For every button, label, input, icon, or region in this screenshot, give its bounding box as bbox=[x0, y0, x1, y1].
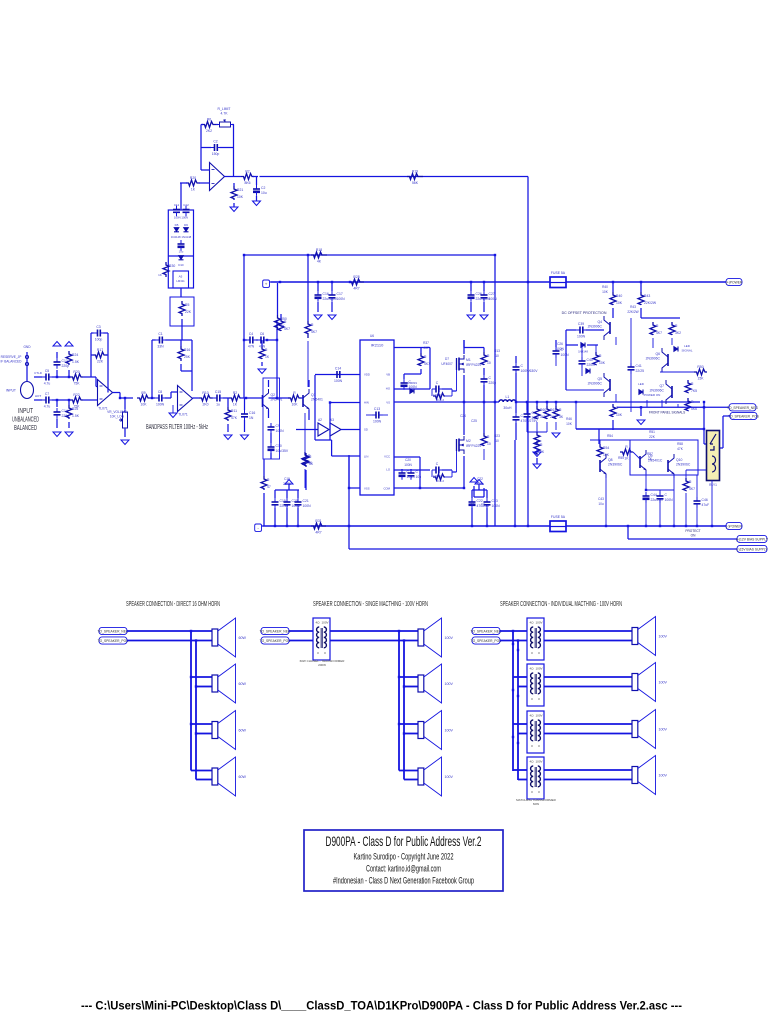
label matching transformer 200w bbox=[300, 659, 346, 667]
wire R52 bot bbox=[555, 422, 557, 430]
label C26 texture bbox=[557, 342, 563, 346]
resistor R6 bbox=[202, 118, 216, 134]
capacitor C17r bbox=[329, 291, 346, 302]
wire R21 to gnd bbox=[233, 203, 235, 207]
wire C45 down bbox=[659, 502, 661, 526]
svg-text:TO_SPEAKER_POS: TO_SPEAKER_POS bbox=[98, 639, 130, 643]
wire Q9 link bbox=[633, 452, 640, 459]
svg-text:1N: 1N bbox=[249, 416, 254, 420]
capacitor C4a bbox=[246, 332, 257, 349]
svg-text:R20: R20 bbox=[73, 370, 79, 374]
svg-text:HIN: HIN bbox=[364, 401, 369, 405]
wire pin VB out bbox=[394, 347, 430, 349]
label R16g bbox=[436, 479, 444, 483]
capacitor C11 bbox=[173, 206, 180, 217]
svg-text:100V: 100V bbox=[535, 667, 542, 671]
resistor R5 loop box bbox=[170, 297, 194, 326]
resistor R43 bbox=[638, 292, 657, 305]
svg-text:47N: 47N bbox=[248, 345, 255, 349]
label R46 texture bbox=[566, 417, 572, 421]
svg-text:100V: 100V bbox=[445, 775, 454, 779]
svg-text:100N: 100N bbox=[492, 504, 501, 508]
svg-text:D5: D5 bbox=[175, 223, 179, 227]
wire junction dots bbox=[56, 254, 713, 744]
label R_LIMIT bbox=[218, 107, 231, 111]
resistor R10 bbox=[199, 391, 212, 407]
wire U1 top jog b bbox=[96, 386, 98, 388]
label A3 bbox=[330, 418, 334, 422]
svg-text:C9: C9 bbox=[481, 502, 485, 506]
wire pin HO out bbox=[394, 388, 430, 390]
wire C14 down bbox=[56, 419, 58, 428]
transformer T2 bbox=[527, 618, 544, 660]
wire panel drop a bbox=[646, 400, 648, 407]
wire pos flag stub bbox=[723, 415, 730, 417]
svg-text:33N: 33N bbox=[157, 345, 164, 349]
pin VDD bbox=[364, 373, 370, 377]
svg-text:C17: C17 bbox=[337, 292, 343, 296]
svg-text:75K: 75K bbox=[73, 382, 80, 386]
label D7 1N4819 bbox=[407, 381, 417, 385]
capacitor C6a bbox=[257, 332, 268, 349]
wire C45 bus bbox=[646, 489, 674, 491]
mosfet M1 bbox=[457, 355, 482, 373]
svg-text:R23: R23 bbox=[494, 434, 500, 438]
svg-text:100N: 100N bbox=[337, 297, 346, 301]
svg-text:8K6: 8K6 bbox=[244, 181, 250, 185]
op-amp U2 bbox=[178, 386, 193, 417]
pin COM bbox=[383, 487, 390, 491]
flag positive rail left bbox=[263, 280, 270, 287]
transformer T3 bbox=[527, 664, 544, 706]
wire Q2 collector bbox=[308, 380, 310, 387]
resistor R38 boot bbox=[418, 353, 430, 366]
capacitor C37 zobel bbox=[524, 410, 540, 421]
pin VCC bbox=[384, 455, 390, 459]
svg-text:10u: 10u bbox=[261, 191, 267, 195]
svg-text:VR_VOLUME: VR_VOLUME bbox=[107, 410, 127, 414]
svg-text:100V: 100V bbox=[659, 681, 668, 685]
label VR 10K bbox=[110, 415, 125, 419]
svg-text:1K: 1K bbox=[624, 457, 629, 461]
wire caps to x277 bbox=[267, 339, 277, 341]
resistor R31 on negrail bbox=[311, 519, 326, 535]
pin VS bbox=[386, 401, 390, 405]
svg-text:220p: 220p bbox=[489, 381, 497, 385]
svg-text:R22: R22 bbox=[73, 393, 79, 397]
svg-text:22K: 22K bbox=[185, 310, 192, 314]
label FRONT PANEL SIGNALS bbox=[649, 411, 686, 415]
resistor R36 x305 bbox=[302, 452, 313, 466]
wire sec1 sp4 neg bbox=[191, 770, 212, 772]
ground above C13 bbox=[53, 342, 61, 347]
svg-text:(-)15V BIAS SUPPLY: (-)15V BIAS SUPPLY bbox=[736, 548, 768, 552]
svg-text:POWER ON: POWER ON bbox=[644, 393, 661, 397]
resistor R18 on W5 bbox=[311, 248, 327, 264]
capacitor C15 bbox=[213, 390, 224, 407]
svg-text:R28: R28 bbox=[353, 275, 359, 279]
resistor R48 bbox=[685, 398, 697, 411]
label R30 val bbox=[158, 273, 162, 277]
label D5 bbox=[175, 223, 179, 227]
svg-text:1K: 1K bbox=[265, 355, 270, 359]
wire sec2 sp3 neg bbox=[399, 723, 418, 725]
wire speaker feed drop bbox=[575, 402, 577, 429]
wire C22 bot bbox=[471, 508, 473, 526]
op-amp U1 bbox=[98, 380, 113, 411]
speaker SP12 bbox=[632, 756, 667, 795]
wire caps mid link bbox=[256, 339, 258, 341]
svg-text:C16: C16 bbox=[323, 292, 329, 296]
svg-text:C7: C7 bbox=[45, 392, 49, 396]
wire cap C2 right bbox=[220, 147, 234, 149]
capacitor C14 vdd bbox=[333, 367, 344, 384]
svg-text:100N: 100N bbox=[489, 297, 498, 301]
speaker SP1 bbox=[212, 618, 246, 657]
speaker SP2 bbox=[212, 664, 246, 703]
ground R52 bbox=[552, 433, 560, 438]
speaker SP11 bbox=[632, 710, 667, 749]
transformer T1 single bbox=[313, 618, 330, 660]
wire U2 fb right vert bbox=[191, 340, 193, 391]
svg-text:22K: 22K bbox=[649, 435, 656, 439]
wire U4 minus input bbox=[201, 169, 210, 171]
wire C17r top bbox=[331, 282, 333, 291]
svg-text:R31: R31 bbox=[315, 519, 321, 523]
transistor Q7 panel bbox=[650, 380, 672, 404]
label R40 texture bbox=[602, 285, 608, 289]
svg-text:2K0: 2K0 bbox=[202, 403, 208, 407]
svg-text:A5: A5 bbox=[179, 275, 183, 279]
pin VB bbox=[386, 373, 390, 377]
svg-text:VS: VS bbox=[386, 401, 390, 405]
label INPUT UNBALANCED BALANCED bbox=[12, 406, 39, 432]
wire sense v2 bbox=[483, 488, 485, 497]
label 10u texture bbox=[598, 502, 604, 506]
svg-text:47: 47 bbox=[267, 485, 271, 489]
wire sec3 sp2 neg bbox=[544, 676, 632, 678]
svg-text:100V: 100V bbox=[659, 774, 668, 778]
wire sec1 sp2 neg bbox=[191, 676, 212, 678]
svg-text:10u: 10u bbox=[416, 475, 422, 479]
label 47K texture bbox=[677, 447, 684, 451]
svg-text:200W: 200W bbox=[318, 663, 326, 667]
wire U2 fb top b bbox=[165, 339, 192, 341]
capacitor C14 bbox=[54, 408, 70, 419]
svg-text:R46: R46 bbox=[566, 417, 572, 421]
svg-text:22K/2W: 22K/2W bbox=[644, 301, 657, 305]
wire R12 to Q2 bbox=[301, 397, 303, 399]
wire pin VDD bbox=[315, 374, 360, 376]
svg-text:4R7: 4R7 bbox=[353, 287, 359, 291]
title block frame bbox=[304, 830, 503, 891]
label RESERVE_JP line2 bbox=[1, 360, 23, 364]
transformer T5 bbox=[527, 757, 544, 799]
svg-text:R40: R40 bbox=[616, 294, 622, 298]
wire sec3 t3 pos bbox=[518, 733, 527, 735]
op-amp U4 limiter bbox=[210, 163, 225, 191]
label 100N texture bbox=[404, 463, 412, 467]
wire sec3 bus neg bbox=[512, 631, 514, 771]
svg-text:LIN: LIN bbox=[364, 455, 368, 459]
svg-text:2N3906C: 2N3906C bbox=[608, 463, 623, 467]
wire R56 down bbox=[685, 493, 687, 526]
wire zobel gnd bbox=[536, 448, 538, 452]
svg-text:R51: R51 bbox=[649, 430, 655, 434]
svg-text:C13: C13 bbox=[374, 407, 380, 411]
wire W5 mid long bbox=[244, 254, 495, 256]
svg-text:GND: GND bbox=[23, 345, 31, 349]
wire snub2 bot bbox=[483, 449, 485, 460]
relay RLY1 bbox=[707, 431, 720, 481]
wire U4 output bbox=[225, 176, 242, 178]
wire C38 down bbox=[555, 357, 557, 366]
wire D18 right bbox=[587, 344, 598, 346]
label 4.7K bbox=[221, 112, 229, 116]
wire snub2 top bbox=[483, 402, 485, 433]
svg-text:100N: 100N bbox=[665, 498, 674, 502]
ground below C2b bbox=[253, 201, 261, 206]
svg-text:C3: C3 bbox=[96, 325, 100, 329]
ground cluster up bbox=[285, 480, 293, 485]
wire snub top bbox=[483, 348, 485, 353]
wire C2b top bbox=[256, 177, 258, 186]
svg-text:Q5: Q5 bbox=[597, 377, 602, 381]
resistor R2f bbox=[229, 391, 241, 407]
flag (+)POWER bbox=[726, 278, 743, 285]
svg-text:4.7u: 4.7u bbox=[44, 405, 51, 409]
wire R11 top bbox=[227, 398, 229, 407]
label LED POWER a bbox=[638, 382, 645, 386]
svg-text:SIGNAL: SIGNAL bbox=[681, 349, 692, 353]
capacitor C22 bbox=[469, 498, 489, 509]
ground below R35 bbox=[533, 464, 541, 469]
svg-text:100V: 100V bbox=[659, 635, 668, 639]
capacitor C36 out bbox=[513, 413, 539, 424]
wire bias line 15V bbox=[349, 548, 737, 550]
svg-text:100N/630V: 100N/630V bbox=[521, 369, 539, 373]
wire R27 stub bbox=[280, 314, 282, 318]
resistor R24 bbox=[66, 351, 80, 365]
svg-text:100N: 100N bbox=[334, 379, 343, 383]
svg-text:1N4148: 1N4148 bbox=[578, 350, 588, 354]
label RLY1 bbox=[709, 483, 717, 487]
wire x349 vertical down bbox=[348, 455, 350, 549]
diode LED power bbox=[639, 390, 643, 395]
svg-text:10K: 10K bbox=[616, 301, 623, 305]
resistor R45 bbox=[669, 322, 681, 335]
resistor R35 x537 bbox=[534, 441, 545, 455]
svg-text:3K2: 3K2 bbox=[675, 331, 681, 335]
svg-text:47uF: 47uF bbox=[702, 503, 710, 507]
resistor R52 right bbox=[553, 406, 564, 419]
resistor R2 output bbox=[241, 170, 254, 186]
label D6 bbox=[184, 223, 188, 227]
wire R60 top bbox=[536, 402, 538, 406]
svg-text:30uH: 30uH bbox=[503, 406, 512, 410]
svg-text:R5: R5 bbox=[185, 303, 189, 307]
ground sense up bbox=[470, 478, 478, 483]
svg-text:LM311: LM311 bbox=[176, 279, 185, 283]
resistor R30 bbox=[163, 262, 175, 277]
svg-text:R40: R40 bbox=[602, 285, 608, 289]
mosfet M2 bbox=[457, 436, 482, 454]
svg-text:4K7: 4K7 bbox=[311, 330, 317, 334]
wire pin LIN bbox=[332, 455, 360, 457]
label UF4007 texture bbox=[441, 362, 453, 366]
capacitor C32g bbox=[432, 462, 443, 479]
svg-text:Q6: Q6 bbox=[655, 352, 660, 356]
wire sec3 sp2 pos bbox=[544, 686, 632, 688]
capacitor C40 dc bbox=[579, 357, 596, 368]
label 4K7 texture bbox=[423, 346, 429, 350]
speaker SP8 bbox=[418, 757, 453, 796]
label D7 texture bbox=[445, 357, 449, 361]
label C22 texture bbox=[477, 477, 483, 481]
resistor R22 bbox=[70, 393, 83, 409]
transistor Q2 second bbox=[303, 389, 323, 413]
svg-text:10: 10 bbox=[495, 439, 499, 443]
label CTLD bbox=[34, 371, 43, 375]
label SPEAKER CONNECTION INDIVIDUAL bbox=[500, 599, 622, 608]
svg-text:4.7u: 4.7u bbox=[44, 382, 51, 386]
capacitor C26 bbox=[468, 291, 491, 302]
label R55 texture bbox=[618, 456, 624, 460]
ground below C14 bbox=[53, 432, 61, 437]
svg-text:FUSE 5A: FUSE 5A bbox=[551, 271, 566, 275]
wire limiter top right bbox=[232, 124, 234, 126]
wire C39 left bbox=[566, 329, 576, 331]
resistor R25 bbox=[66, 405, 80, 419]
wire C21 top bbox=[297, 490, 299, 498]
wire R5 to C1 bbox=[181, 326, 183, 340]
flag TO_SPEAKER_NEG bbox=[727, 404, 758, 411]
limiter network box bbox=[168, 210, 193, 288]
svg-text:C10: C10 bbox=[276, 444, 282, 448]
capacitor C33 bbox=[399, 469, 416, 480]
wire C2b bottom bbox=[256, 196, 258, 201]
svg-text:C14: C14 bbox=[335, 367, 341, 371]
wire limiter chain vertical bbox=[180, 183, 182, 210]
label 10u bbox=[179, 250, 184, 254]
svg-text:100N: 100N bbox=[556, 347, 564, 351]
resistor R47 bbox=[685, 380, 697, 393]
svg-text:15K: 15K bbox=[697, 377, 704, 381]
wire C17r bot bbox=[331, 302, 333, 312]
wire R38 bot bbox=[420, 369, 422, 374]
svg-text:TL071: TL071 bbox=[178, 413, 188, 417]
jumper JP1 stub bbox=[26, 352, 28, 372]
label LED SIGNAL a bbox=[684, 344, 691, 348]
wire COM down bbox=[419, 457, 421, 488]
wire U2 fb top a bbox=[152, 339, 156, 341]
svg-text:2N3906C: 2N3906C bbox=[676, 463, 691, 467]
wire M1 drain up bbox=[463, 340, 465, 354]
wire sec3 t4 neg bbox=[513, 769, 527, 771]
svg-text:+: + bbox=[265, 282, 268, 287]
label sense C8 bbox=[470, 502, 474, 506]
resistor R16g gate bbox=[433, 474, 445, 480]
svg-text:FUSE 5A: FUSE 5A bbox=[551, 515, 566, 519]
svg-text:SPEAKER CONNECTION - INDIVIDUA: SPEAKER CONNECTION - INDIVIDUAL MACTHING… bbox=[500, 599, 622, 608]
wire relay common in bbox=[704, 443, 707, 445]
svg-text:22K: 22K bbox=[97, 360, 104, 364]
wire sec3 t2 neg bbox=[513, 676, 527, 678]
label PROTECT ON a bbox=[685, 529, 700, 533]
wire x305 lower bbox=[304, 469, 306, 488]
fuse F2 bbox=[550, 515, 566, 532]
label 22/35 texture bbox=[283, 482, 291, 486]
wire protect bus bbox=[590, 439, 660, 441]
wire sec3 sp1 neg bbox=[544, 630, 632, 632]
wire relay to rail bbox=[711, 481, 713, 527]
svg-text:TO_SPEAKER_NEG: TO_SPEAKER_NEG bbox=[727, 406, 758, 410]
svg-text:C44: C44 bbox=[651, 493, 657, 497]
wire C41 up bbox=[630, 318, 632, 363]
wire out regulator bbox=[180, 288, 182, 297]
capacitor C31 snub bbox=[481, 375, 497, 386]
svg-text:10K_LOG: 10K_LOG bbox=[110, 415, 125, 419]
wire C26 bot bbox=[470, 302, 472, 312]
wire sec2 sp2 pos bbox=[404, 686, 418, 688]
wire x515 vertical bbox=[514, 440, 516, 526]
diode D19 bbox=[586, 369, 590, 374]
wire M2 gate vert bbox=[456, 451, 458, 472]
svg-text:R21: R21 bbox=[237, 188, 243, 192]
wire C35 up bbox=[515, 356, 517, 363]
wire snub link bbox=[483, 368, 485, 375]
wire C34 top bbox=[410, 469, 412, 470]
ground below R25 bbox=[65, 432, 73, 437]
wire U1 out jog bbox=[119, 393, 121, 399]
capacitor C2 bbox=[211, 140, 222, 157]
svg-text:TO_SPEAKER_POS: TO_SPEAKER_POS bbox=[260, 639, 292, 643]
buffer A3 bbox=[330, 423, 341, 436]
label 10K texture bbox=[566, 422, 573, 426]
svg-text:4K7: 4K7 bbox=[656, 331, 662, 335]
svg-text:2N3906C: 2N3906C bbox=[650, 389, 665, 393]
wire panel drop c bbox=[677, 404, 679, 407]
resistor R12 bbox=[288, 391, 301, 407]
label RESERVE_JP line1 bbox=[1, 355, 22, 359]
svg-text:10K: 10K bbox=[237, 195, 244, 199]
wire C39 right bbox=[586, 329, 604, 331]
wire gate loop to mosfet bbox=[451, 389, 453, 396]
capacitor C45 protect bbox=[657, 492, 674, 503]
wire pin HIN bbox=[330, 402, 360, 404]
speaker SP5 bbox=[418, 618, 453, 657]
capacitor C5 bbox=[42, 369, 53, 386]
wire R26 top bbox=[261, 340, 263, 346]
capacitor C2b polarized bbox=[253, 185, 267, 196]
svg-text:C4: C4 bbox=[249, 332, 253, 336]
svg-text:10K: 10K bbox=[140, 403, 147, 407]
wire R54 link bbox=[599, 440, 601, 444]
svg-text:10: 10 bbox=[487, 442, 491, 446]
wire U2 plus gnd bbox=[172, 405, 174, 413]
wire C16 top bbox=[244, 398, 246, 410]
wire sec1 sp2 pos bbox=[196, 686, 212, 688]
svg-text:TO_SPEAKER_POS: TO_SPEAKER_POS bbox=[471, 639, 503, 643]
wire limiter top left bbox=[201, 124, 203, 126]
svg-text:22/35: 22/35 bbox=[283, 482, 291, 486]
label 22K texture bbox=[649, 435, 656, 439]
ground C17r bbox=[328, 315, 336, 320]
inductor L1 bbox=[499, 395, 516, 410]
pin SD bbox=[364, 428, 368, 432]
wire panel mid bbox=[660, 371, 694, 373]
capacitor C16r bbox=[315, 291, 338, 302]
